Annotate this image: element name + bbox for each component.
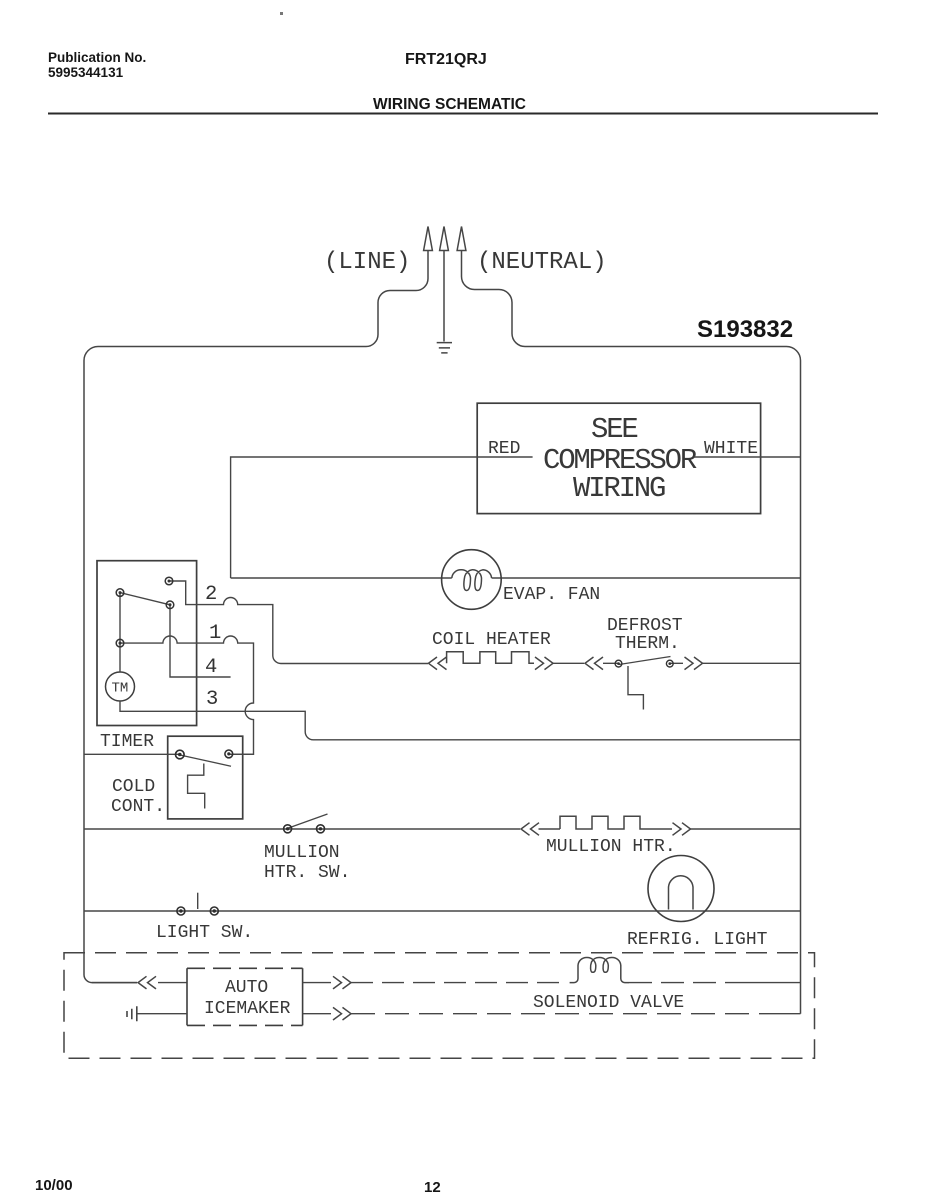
timer contact A — [116, 589, 124, 597]
svg-text:MULLION HTR.: MULLION HTR. — [546, 837, 676, 857]
svg-text:THERM.: THERM. — [615, 634, 680, 654]
svg-text:2: 2 — [205, 583, 217, 606]
mullion heater element — [560, 816, 646, 829]
timer contact D — [116, 639, 124, 647]
svg-text:FRT21QRJ: FRT21QRJ — [405, 51, 487, 68]
svg-text:MULLION: MULLION — [264, 843, 340, 863]
mullion switch contact left — [284, 825, 292, 833]
svg-text:Publication No.: Publication No. — [48, 50, 146, 65]
svg-text:TM: TM — [112, 681, 129, 697]
mullion switch contact right — [317, 825, 325, 833]
cold control blade — [180, 755, 231, 766]
wire: TM motor to pin 3 line — [120, 701, 801, 740]
light switch contact left — [177, 907, 185, 915]
wire: solenoid valve to neutral bus — [629, 982, 748, 984]
svg-text:12: 12 — [424, 1179, 441, 1196]
wire: defrost thermostat to neutral bus — [703, 662, 801, 664]
timer switch blade A-C — [120, 593, 170, 605]
timer contact B — [165, 577, 173, 585]
svg-text:SEE: SEE — [591, 413, 637, 446]
mullion heater switch blade — [289, 814, 328, 828]
wire: lower feed solid tail into bus — [768, 1013, 801, 1015]
svg-text:3: 3 — [206, 688, 218, 711]
svg-text:TIMER: TIMER — [100, 732, 154, 752]
cold control contact left — [176, 750, 185, 759]
connector chevrons icemaker upper right — [333, 976, 351, 989]
wire: evaporator fan line — [231, 577, 801, 579]
svg-text:WHITE: WHITE — [704, 439, 758, 459]
light switch actuator — [197, 893, 199, 909]
svg-text:S193832: S193832 — [697, 316, 793, 343]
svg-text:1: 1 — [209, 622, 221, 645]
wire: timer contact B to pin 2 line with crossover bump — [169, 581, 428, 664]
svg-text:COLD: COLD — [112, 777, 155, 797]
auto icemaker box — [187, 968, 303, 1025]
defrost thermostat blade — [619, 657, 671, 665]
connector chevrons left of coil heater — [429, 657, 447, 670]
speck — [280, 12, 283, 15]
wire: dashed lower run to neutral bus — [351, 1013, 768, 1015]
svg-text:SOLENOID VALVE: SOLENOID VALVE — [533, 993, 684, 1013]
timer motor TM circle — [106, 672, 135, 701]
svg-text:RED: RED — [488, 439, 520, 459]
wire: refrigerator light line — [84, 910, 801, 912]
connector chevrons right of mullion heater — [673, 823, 691, 836]
wire: coil heater to defrost thermostat — [553, 662, 584, 664]
connector chevrons icemaker lower right — [333, 1007, 351, 1020]
wire: icemaker lower feed — [137, 1013, 187, 1015]
defrost thermostat sensing tube — [628, 666, 643, 710]
svg-text:COIL HEATER: COIL HEATER — [432, 630, 551, 650]
wire: red lead into compressor box — [231, 457, 533, 578]
arrow terminal (ground) — [440, 227, 449, 251]
svg-text:4: 4 — [205, 656, 217, 679]
refrigerator light bulb circle — [648, 856, 714, 922]
wire: line-side supply drop and left outer bus — [84, 251, 428, 983]
timer box — [97, 561, 197, 726]
wire: timer contact D to TM motor — [119, 643, 121, 672]
wire: dashed run to solenoid valve — [351, 982, 566, 984]
wire: timer contact C down to pin 4 line — [170, 605, 231, 677]
svg-text:DEFROST: DEFROST — [607, 616, 683, 636]
compressor box — [477, 403, 760, 513]
connector chevrons left of defrost thermostat — [585, 657, 603, 670]
cold control contact right — [225, 750, 233, 758]
svg-text:WIRING: WIRING — [573, 472, 665, 505]
timer contact C — [166, 601, 174, 609]
evap fan motor circle U-FAN — [442, 550, 502, 610]
wire: timer contact A to D — [119, 593, 121, 644]
svg-text:ICEMAKER: ICEMAKER — [204, 999, 291, 1019]
earth ground symbol — [437, 343, 452, 353]
svg-text:(NEUTRAL): (NEUTRAL) — [477, 249, 607, 276]
wire: neutral-side drop and right outer bus — [462, 251, 801, 1014]
defrost thermostat contact left — [615, 660, 622, 667]
wire: mullion heater line — [84, 828, 801, 830]
cold control bellows — [188, 764, 205, 809]
light switch contact right — [210, 907, 218, 915]
wire: upper feed solid tail into bus — [748, 982, 801, 984]
svg-text:WIRING SCHEMATIC: WIRING SCHEMATIC — [373, 96, 526, 113]
solenoid valve coil — [570, 957, 629, 982]
wire: pin 1 line with two crossover bumps — [120, 636, 254, 754]
wire: ground drop — [443, 251, 445, 342]
svg-text:AUTO: AUTO — [225, 978, 268, 998]
connector chevrons left of mullion heater — [521, 823, 539, 836]
wire: left bus to cold control — [84, 753, 180, 755]
svg-text:5995344131: 5995344131 — [48, 65, 124, 80]
svg-text:REFRIG. LIGHT: REFRIG. LIGHT — [627, 930, 768, 950]
wire: white lead from compressor box to neutral bus — [694, 456, 801, 458]
svg-text:LIGHT SW.: LIGHT SW. — [156, 923, 253, 943]
connector chevrons right of defrost thermostat — [685, 657, 703, 670]
arrow terminal (neutral) — [457, 227, 466, 251]
refrigerator light filament — [669, 876, 694, 910]
svg-text:10/00: 10/00 — [35, 1177, 73, 1194]
wire: icemaker upper feed — [92, 982, 187, 984]
wire: icemaker lower output — [303, 1013, 331, 1015]
wire: defrost contact link — [603, 662, 683, 664]
svg-text:HTR. SW.: HTR. SW. — [264, 863, 350, 883]
connector chevrons right of coil heater — [535, 657, 553, 670]
header rule — [48, 113, 878, 115]
svg-text:(LINE): (LINE) — [324, 249, 410, 276]
arrow terminal (line) — [424, 227, 433, 251]
defrost thermostat contact right — [666, 660, 673, 667]
cold control box — [168, 736, 243, 819]
svg-text:EVAP. FAN: EVAP. FAN — [503, 585, 600, 605]
wire: cold control to timer pin 1 riser — [229, 753, 254, 755]
icemaker dashed enclosure — [64, 953, 815, 1059]
connector chevrons icemaker upper left — [138, 976, 156, 989]
chassis ground at icemaker — [127, 1006, 137, 1021]
svg-text:CONT.: CONT. — [111, 797, 165, 817]
coil heater element — [447, 652, 534, 664]
wire: icemaker upper output with chevrons — [303, 982, 331, 984]
evap fan winding symbol — [452, 570, 492, 591]
